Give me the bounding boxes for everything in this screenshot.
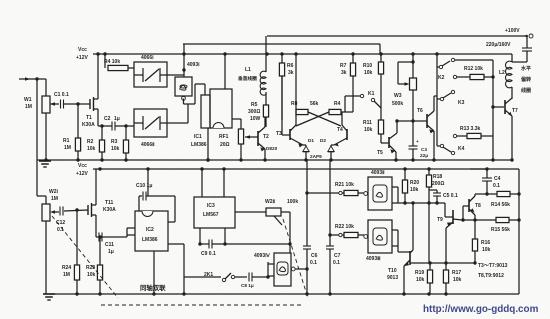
power rail Vcc +12V bottom	[97, 168, 519, 170]
wire IC2 supply	[147, 169, 149, 196]
transistor T11 jfet	[87, 205, 89, 215]
wire C9 row to 4093IV	[213, 243, 291, 245]
resistor R4	[104, 54, 106, 68]
ground rail bottom section	[56, 293, 519, 295]
power rail Vcc +12V top	[97, 53, 512, 55]
switch K1	[380, 74, 382, 120]
resistor R18	[428, 169, 430, 175]
resistor R24	[76, 210, 78, 265]
wire C2 to R3 and 4066II	[115, 125, 134, 127]
op-amp IC1 LM386	[201, 95, 210, 128]
resistor R1	[77, 104, 79, 138]
capacitor C1	[60, 100, 62, 109]
wire T10 collector row	[410, 262, 475, 264]
resistor RF1 trimmer	[232, 118, 241, 120]
resistor R16	[474, 220, 476, 239]
wire input to W1	[37, 78, 46, 80]
capacitor C2	[111, 122, 113, 131]
capacitor C3 electrolytic	[409, 145, 418, 147]
wire T1 source node	[98, 125, 112, 127]
wire column to R21	[306, 160, 308, 246]
analog switch 4066-II	[134, 109, 167, 137]
resistor R7	[352, 54, 354, 63]
wire IC3 bottom pins	[199, 228, 201, 244]
resistor R15	[462, 219, 496, 221]
wire 4066 outputs join	[167, 74, 184, 76]
wire IC1 ground pin	[207, 128, 209, 160]
capacitor C11	[98, 233, 100, 242]
capacitor C6	[303, 245, 311, 247]
potentiometer W3	[412, 54, 414, 78]
wire column to R22	[329, 160, 331, 246]
resistor R10	[380, 54, 382, 62]
resistor R3	[125, 126, 127, 140]
wire IC2 input pins	[127, 227, 135, 229]
wire IC2 output	[168, 243, 184, 245]
op-amp IC2 LM386	[135, 211, 168, 251]
wire K switch feed column	[436, 54, 438, 96]
wire input down to ground rail	[36, 79, 38, 160]
node +100V terminal	[529, 34, 533, 38]
potentiometer W1	[45, 79, 47, 96]
capacitor C12	[59, 207, 61, 216]
wire dashed gang link W2	[52, 216, 118, 298]
wire right column	[518, 169, 520, 294]
resistor R14	[475, 193, 497, 195]
resistor R22	[339, 233, 342, 236]
transistor T1 jfet	[89, 99, 91, 109]
capacitor C8	[248, 273, 250, 282]
resistor R19	[429, 263, 431, 270]
capacitor C9	[208, 240, 210, 249]
wire 4093-III output	[392, 229, 398, 231]
wire IC3 output to W2II	[235, 211, 266, 213]
resistor R2	[101, 126, 103, 140]
power rail +100V top	[267, 35, 528, 37]
resistor R8	[295, 54, 297, 112]
wire gate output row	[398, 202, 445, 204]
ground rail top section	[37, 159, 511, 161]
resistor R6	[281, 54, 283, 63]
wire 4093-IV inputs	[267, 262, 269, 278]
wire cross coupling flip-flop	[308, 112, 341, 126]
wire IC2 ground	[153, 251, 155, 294]
resistor R17	[445, 263, 447, 270]
resistor R11	[378, 120, 383, 134]
wire 4093-IV output	[295, 268, 307, 270]
wire 4093-II output	[392, 186, 398, 188]
wire T7 base column	[493, 106, 504, 108]
resistor R20	[404, 169, 406, 180]
ground symbol bottom rail	[43, 293, 55, 295]
node input terminal left	[19, 78, 37, 80]
resistor R23	[96, 236, 100, 238]
wire C1 to T1 gate	[64, 103, 91, 105]
tone decoder IC3 LM567	[194, 197, 235, 228]
capacitor C7	[326, 245, 334, 247]
analog switch 4066-I	[134, 62, 167, 87]
wire T9 base row	[427, 201, 430, 204]
wire +100V rail down to L1	[265, 36, 267, 72]
resistor R9	[329, 109, 341, 114]
ground symbol top rail	[39, 160, 51, 162]
resistor R5	[263, 105, 268, 117]
capacitor C5	[429, 189, 437, 191]
